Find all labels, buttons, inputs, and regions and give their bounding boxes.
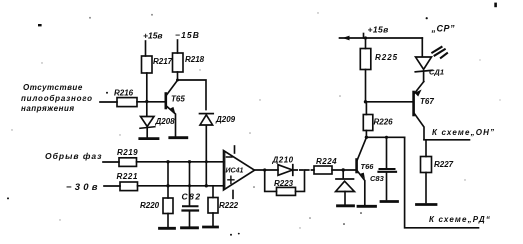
wire junction to T67 base	[366, 101, 414, 103]
ground R220	[160, 227, 175, 230]
svg-text:R226: R226	[374, 118, 394, 127]
resistor R224	[314, 157, 337, 174]
svg-text:Отсутствие: Отсутствие	[23, 83, 83, 92]
wire R222 to ground	[212, 213, 214, 226]
op-amp U1 IC41	[224, 146, 255, 198]
node row B R220	[166, 184, 169, 187]
resistor R218	[173, 53, 205, 72]
resistor R227	[421, 140, 454, 203]
wire +15V to R217	[145, 41, 147, 56]
svg-text:R221: R221	[117, 172, 139, 181]
wire to scheme RD	[405, 137, 479, 228]
wire to R221	[104, 185, 120, 187]
wire R216 to T65 base	[137, 101, 165, 103]
svg-text:R216: R216	[114, 89, 134, 98]
ground R222	[204, 226, 218, 229]
net +15V rail (right)	[340, 25, 423, 41]
wire input to R216	[100, 101, 117, 103]
svg-text:R224: R224	[316, 157, 337, 166]
svg-text:−30в: −30в	[66, 182, 101, 193]
net +15V (left) label	[143, 31, 163, 41]
svg-text:ИС41: ИС41	[226, 168, 244, 175]
clamp diode (to ground)	[336, 170, 355, 204]
node T67 base	[364, 100, 367, 103]
wire to R219	[103, 161, 119, 163]
svg-text:К схеме„РД“: К схеме„РД“	[429, 215, 491, 224]
svg-text:R218: R218	[185, 55, 205, 64]
svg-text:С83: С83	[370, 174, 385, 183]
svg-text:R217: R217	[153, 57, 173, 66]
resistor R223 feedback	[265, 170, 305, 195]
LED GD1	[415, 38, 447, 82]
node R226 bottom	[365, 136, 368, 139]
node C83 top	[385, 136, 388, 139]
resistor R226	[363, 102, 393, 138]
wire to scheme ON	[424, 139, 470, 141]
svg-text:С82: С82	[182, 192, 202, 202]
wire R218 bottom / T65 collector to D209	[178, 72, 207, 110]
wire R220 drop	[167, 162, 169, 198]
resistor R225	[360, 49, 398, 70]
capacitor C83	[370, 137, 396, 199]
svg-text:+15в: +15в	[143, 31, 163, 41]
wire T66 collector node to RD drop	[366, 136, 404, 138]
net -30V label	[66, 182, 101, 193]
ground T66 emitter	[358, 205, 376, 208]
input text: phase break	[45, 151, 102, 161]
svg-text:R220: R220	[140, 201, 160, 210]
node clamp diode	[342, 168, 345, 171]
resistor R220	[140, 198, 173, 214]
svg-text:Д210: Д210	[272, 156, 294, 165]
diode D209	[200, 114, 236, 162]
wire C82 drop	[189, 162, 191, 206]
ground C82	[182, 226, 198, 229]
svg-text:−15В: −15В	[175, 30, 200, 40]
svg-text:R227: R227	[434, 160, 454, 169]
node row A C82	[188, 160, 191, 163]
wire rail to R225	[365, 38, 367, 49]
svg-text:R225: R225	[375, 53, 398, 62]
node row B C82 crossing	[188, 184, 191, 187]
wire C82 to ground	[189, 212, 191, 227]
wire row B (plus input)	[138, 185, 224, 187]
wire R220 to ground	[167, 214, 169, 228]
resistor R221	[117, 172, 139, 191]
transistor T67	[414, 82, 435, 140]
transistor T66	[357, 138, 375, 205]
resistor R216	[114, 89, 137, 107]
ground clamp diode	[338, 204, 354, 207]
wire R217 to base node and D208	[146, 73, 148, 116]
svg-text:+15в: +15в	[368, 25, 389, 35]
wire D209 anode to plus row	[205, 161, 207, 186]
svg-text:Обрыв фаз: Обрыв фаз	[45, 151, 102, 161]
svg-text:Д208: Д208	[155, 117, 176, 126]
wire row A (minus input)	[137, 161, 224, 163]
resistor R219	[117, 148, 138, 166]
wire op-amp output	[255, 169, 279, 171]
svg-text:К схеме„ОН”: К схеме„ОН”	[432, 128, 495, 137]
wire D210 to R224 (faint dashes)	[294, 169, 314, 171]
svg-text:Т65: Т65	[171, 95, 185, 104]
node output feedback	[263, 168, 266, 171]
diode D210	[272, 156, 294, 176]
svg-text:R222: R222	[219, 201, 239, 210]
node row A R220	[166, 160, 169, 163]
wire R222 stub	[212, 186, 214, 198]
resistor R217	[142, 56, 173, 73]
wire R225 to junction	[365, 70, 367, 102]
diode D208	[140, 117, 175, 138]
resistor R222	[208, 198, 239, 214]
capacitor C82	[182, 192, 202, 211]
ground C83	[381, 200, 398, 203]
net label SR	[431, 24, 456, 34]
ground T65 emitter	[170, 136, 187, 139]
node collector	[176, 79, 179, 82]
svg-text:Т66: Т66	[361, 162, 375, 171]
node R225 top	[364, 36, 367, 39]
wire -15V to R218	[177, 40, 179, 53]
node row A D209 crossing	[205, 160, 208, 163]
svg-text:Т67: Т67	[420, 97, 434, 106]
ground D208	[140, 137, 158, 140]
input text: absence of sawtooth voltage	[21, 83, 93, 113]
svg-text:Д209: Д209	[215, 115, 236, 124]
svg-text:СД1: СД1	[429, 68, 444, 77]
net -15V label	[175, 30, 200, 40]
net label K scheme RD	[429, 215, 491, 224]
svg-text:R223: R223	[274, 179, 294, 188]
wire R224 to T66 base	[332, 169, 356, 171]
ground R227	[417, 203, 437, 206]
svg-text:напряжения: напряжения	[21, 104, 75, 113]
svg-text:пилообразного: пилообразного	[21, 94, 93, 103]
svg-text:R219: R219	[117, 148, 138, 157]
transistor T65	[166, 81, 186, 137]
net label K scheme ON	[432, 128, 495, 137]
svg-text:„СР”: „СР”	[431, 24, 456, 34]
node row B D209/R222	[205, 184, 208, 187]
node base T65	[145, 100, 148, 103]
